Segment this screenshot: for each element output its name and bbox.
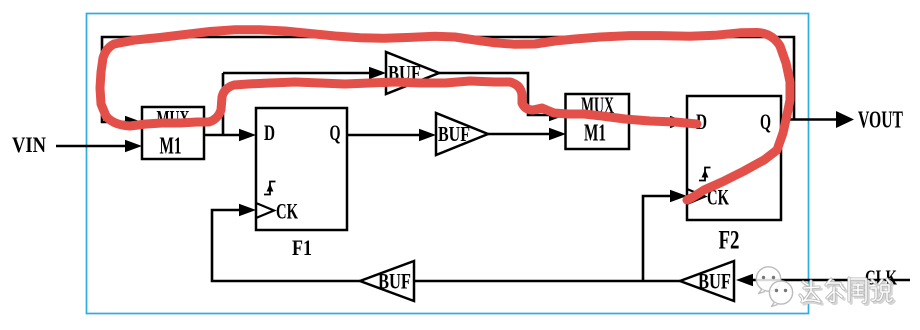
node loop arrowhead into MUX1	[125, 116, 142, 128]
wire left BUF to F1 CK	[212, 210, 360, 281]
buffer BUF right (clock)	[680, 261, 734, 301]
node arrowhead into MUX2 lower	[549, 128, 566, 140]
node arrowhead into top BUF	[369, 67, 386, 79]
wire MUX2 output to F2 D	[629, 121, 673, 124]
svg-text:BUF: BUF	[378, 269, 411, 294]
frame border	[87, 14, 809, 314]
buffer BUF left (clock)	[360, 261, 414, 301]
svg-text:CK: CK	[276, 199, 298, 224]
wire feedback loop Q2 to MUX1	[102, 37, 794, 122]
wire branch up from MUX1 output	[222, 73, 225, 135]
svg-text:VIN: VIN	[12, 132, 46, 157]
wire F1 Q to middle BUF	[347, 134, 422, 137]
clock wedge F2	[687, 189, 705, 204]
node arrowhead into F1 D	[239, 129, 256, 141]
wire MUX1 output to F1 D	[204, 134, 242, 137]
svg-text:M1: M1	[584, 121, 606, 147]
mux M1 right box	[566, 94, 630, 149]
svg-text:D: D	[264, 120, 275, 145]
svg-text:F1: F1	[292, 235, 312, 260]
node VIN arrowhead	[125, 140, 142, 152]
node arrowhead into right BUF	[736, 274, 753, 286]
wire top BUF output to MUX2 upper input	[439, 73, 552, 115]
svg-text:BUF: BUF	[698, 269, 731, 294]
wire branch up to F2 CK	[643, 196, 672, 281]
svg-text:Q: Q	[330, 120, 341, 145]
svg-text:M1: M1	[160, 134, 182, 160]
svg-text:BUF: BUF	[438, 122, 470, 146]
wire F2 Q to VOUT	[781, 118, 838, 121]
node arrowhead into F2 D	[670, 116, 687, 128]
wire middle BUF to MUX2 lower input	[488, 133, 552, 136]
node arrowhead into F2 CK	[670, 190, 687, 202]
annotation red marker path	[100, 30, 790, 200]
wire right BUF to left BUF	[414, 280, 680, 283]
wire VIN input	[56, 145, 128, 148]
wire to top BUF input	[223, 72, 372, 75]
flip-flop F1 box	[256, 108, 347, 230]
node arrowhead into middle BUF	[419, 129, 436, 141]
svg-text:VOUT: VOUT	[858, 108, 903, 134]
mux M1 left box	[142, 107, 204, 159]
svg-text:F2: F2	[719, 226, 740, 255]
buffer BUF middle	[436, 113, 488, 155]
wire CLK input	[750, 279, 910, 282]
edge trigger glyph F2	[699, 168, 711, 181]
flip-flop F2 box	[687, 96, 781, 220]
svg-text:Q: Q	[760, 109, 771, 134]
edge trigger glyph F1	[264, 182, 276, 195]
watermark wechat icon	[756, 267, 792, 307]
node arrowhead into F1 CK	[239, 204, 256, 216]
node VOUT arrowhead	[836, 111, 854, 128]
node arrowhead into MUX2 upper	[549, 109, 566, 121]
clock wedge F1	[256, 203, 274, 218]
buffer BUF top	[386, 52, 439, 94]
